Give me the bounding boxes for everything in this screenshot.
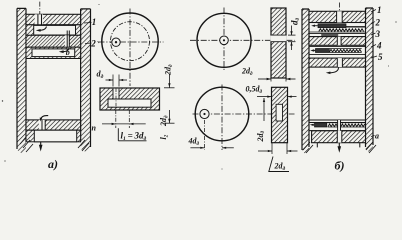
horizontal pin 2 of a (white bar) <box>32 49 75 57</box>
right wall of assembly b <box>366 8 374 152</box>
scan specks <box>2 4 397 170</box>
top view circle C2 (right group) <box>197 13 251 67</box>
svg-text:п: п <box>92 124 97 133</box>
thin plate row C of b <box>309 33 366 36</box>
leader ticks and labels 1-5 <box>371 10 377 59</box>
svg-text:1: 1 <box>92 17 97 27</box>
middle bar side view <box>100 88 160 110</box>
svg-text:а: а <box>375 132 379 141</box>
dimension 2d right of bar (upper) <box>164 64 175 88</box>
side plate bar (top right) <box>271 8 286 78</box>
svg-text:5: 5 <box>378 52 383 62</box>
knurled pin section in bottom assembly of b <box>328 123 366 127</box>
bar axis extended below bar <box>128 110 130 128</box>
row 2 hatch of a <box>26 25 81 36</box>
vertical dim 2d left of bottom right bar <box>256 98 266 143</box>
top view circle C1 (left) <box>102 13 158 69</box>
vertical slot in bottom right bar <box>276 104 282 121</box>
extension lines from hole to dim d <box>113 75 119 87</box>
slot dimension d (right of bar) <box>288 18 301 51</box>
vertical pin in thick bottom bar <box>337 120 342 143</box>
hook arrow under plate 5 <box>326 68 339 75</box>
bottom view circle C3 <box>195 87 249 141</box>
row boundary line under plate 3 <box>309 46 366 48</box>
dimension 0,5d across bar <box>246 85 297 98</box>
plate 1 of b <box>309 11 366 22</box>
insertion arrow of pin row D <box>310 49 315 51</box>
pin row A of b (dark pin) <box>318 24 346 28</box>
insertion hook at left <box>310 124 315 126</box>
broken-edge hatch under right wall <box>78 140 89 151</box>
horizontal centerline of C1 <box>99 41 164 43</box>
dimension l1 = 3d line <box>102 123 146 125</box>
svg-text:б): б) <box>335 159 345 173</box>
horizontal pin inside middle bar (white) <box>108 99 151 107</box>
lower row hatch of bottom bar <box>26 130 81 142</box>
downward arrow under b <box>338 143 342 153</box>
pin hole small circle on C1 <box>112 38 120 46</box>
broken-edge hatch under walls of b <box>303 142 376 153</box>
horizontal pin 1 of a (white bar) <box>34 25 76 35</box>
hole axis centerline through bar <box>115 89 117 110</box>
left wall of assembly a <box>17 8 26 154</box>
horizontal centerline of C3 <box>193 113 295 115</box>
leader and label 1 <box>84 22 92 25</box>
centerline of pin P1 <box>39 2 41 15</box>
label a (right side) <box>371 136 375 137</box>
knurled pin row B of b <box>309 29 366 32</box>
centerline above plate 1 <box>338 3 340 12</box>
plate row 1 of a (top hatched plate) <box>26 14 81 24</box>
bottom edge line of top assembly a <box>26 58 81 60</box>
corner ticks under bottom bar <box>317 143 360 148</box>
row boundary line under row D <box>309 54 366 56</box>
plate edge line right of pin A <box>346 26 366 28</box>
row 4 hatch of a <box>26 47 81 58</box>
horizontal centerline of C2 <box>190 39 295 41</box>
vertical pin gap in plate 3 <box>337 37 341 46</box>
bottom bar of a (hatched) <box>26 120 81 130</box>
bottom assembly of b: thin plate lines <box>310 120 366 123</box>
center pin hole of C2 <box>220 36 229 45</box>
vertical pin gap in plate 5 <box>337 58 342 67</box>
dark pin in bottom assembly of b <box>315 123 327 127</box>
side plate bar (bottom right) <box>272 87 288 142</box>
dimension 2d under top right bar <box>241 67 296 82</box>
horizontal pin bar (white) in bottom assembly <box>34 130 76 142</box>
svg-text:1: 1 <box>377 5 382 15</box>
vertical centerline of C1 <box>129 9 131 87</box>
insertion hook arrow over pin P3 <box>40 116 49 122</box>
dimension 2d right of bar (lower) <box>159 110 175 127</box>
broken-edge hatch under left wall <box>20 137 33 152</box>
svg-text:а): а) <box>48 157 58 171</box>
svg-text:4: 4 <box>376 41 382 51</box>
hole axis extension of C3 <box>204 120 206 150</box>
vertical pin P1 in plate row 1 (hole with clearance) <box>35 14 43 24</box>
leader and label 2 <box>85 42 92 45</box>
downward arrow under bottom bar <box>39 142 43 152</box>
knurled pin row D of b <box>315 49 361 53</box>
vertical pin gap in plate 1 <box>337 11 343 22</box>
svg-text:b: b <box>66 48 70 57</box>
insertion arrow in pin 1 <box>36 27 47 32</box>
svg-text:3: 3 <box>375 29 381 39</box>
offset pin hole of C3 <box>200 109 209 118</box>
pin hole slot in middle bar <box>113 89 119 99</box>
inner pitch circle of C1 <box>111 22 150 61</box>
vertical pin P3 in bottom bar (hole with clearance) <box>39 120 46 130</box>
dimension d arrows <box>106 79 128 81</box>
vertical centerline of C3 <box>221 85 223 151</box>
plate 3 of b <box>309 37 366 46</box>
right wall of assembly a <box>81 9 91 152</box>
svg-text:2: 2 <box>375 18 381 28</box>
left wall of assembly b <box>302 9 309 154</box>
dimension 2d under bottom right bar <box>258 143 298 172</box>
vertical centerline of C2 <box>223 8 225 71</box>
plate 5 of b <box>309 58 366 67</box>
dimension 4d under C3 <box>188 137 234 149</box>
lower boundary line <box>310 130 366 132</box>
svg-text:2: 2 <box>90 39 96 49</box>
vertical pin P2 through rows 2-3 (hole with clearance) <box>65 31 70 48</box>
hole axis extended below bar <box>115 110 117 128</box>
insertion arrow of pin row A <box>311 25 318 27</box>
framed label l1 = 3d <box>118 128 146 142</box>
row 3 hatch of a (dense) <box>26 35 81 47</box>
insertion arrow with label b <box>59 48 69 53</box>
thick bottom bar of b <box>312 131 366 143</box>
pin slot in top right bar <box>270 35 286 42</box>
